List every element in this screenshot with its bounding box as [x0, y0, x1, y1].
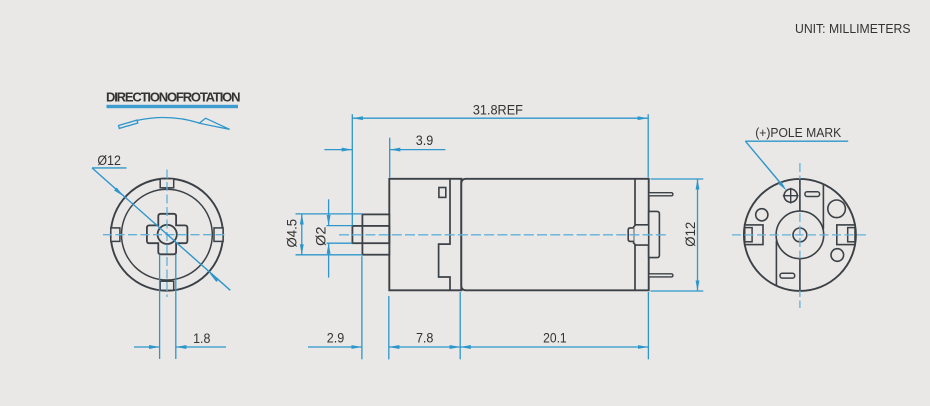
dim 20.1 extension right [647, 292, 649, 359]
rear hole upper right [828, 200, 846, 218]
ring notch bottom [160, 281, 174, 290]
rear slot lower left [780, 273, 795, 278]
dim 31.8REF line [352, 117, 648, 119]
svg-text:Ø2: Ø2 [313, 226, 328, 246]
front view horizontal centerline [103, 234, 227, 236]
dim 2.9 tail [308, 346, 362, 348]
label underline bar [107, 105, 239, 108]
svg-text:Ø4.5: Ø4.5 [285, 219, 300, 248]
svg-text:(+)POLE MARK: (+)POLE MARK [755, 125, 841, 140]
dim 20.1 line [460, 346, 648, 348]
dim dia12 line [697, 179, 699, 291]
dim 3.9 tail right [390, 149, 446, 151]
dim 1.8 extension left [159, 255, 161, 360]
dim 1.8 line right [176, 346, 226, 348]
dim dia2 extension top [327, 225, 353, 227]
rear left tab window [745, 228, 752, 242]
pole mark circle [784, 189, 797, 202]
motor shaft [352, 226, 389, 243]
dim 3.9 extension [389, 138, 391, 178]
ring notch right [214, 228, 223, 242]
front dia arrow upper [114, 188, 124, 197]
ring notch left [111, 228, 120, 242]
rotation arc arrow [119, 117, 230, 129]
rear left tab outer [745, 225, 763, 245]
hub cross [147, 214, 188, 255]
rear shaft circle [793, 228, 807, 242]
rear boss circle [776, 211, 824, 259]
dim 1.8 extension right [175, 255, 177, 360]
gearbox body [389, 179, 461, 290]
bearing recess boss [634, 225, 649, 245]
svg-text:Ø12: Ø12 [683, 222, 699, 247]
ring notch top [160, 179, 174, 188]
front dia arrow lower [210, 273, 220, 282]
terminal bottom [649, 274, 673, 277]
dim dia2 extension bottom [327, 242, 353, 244]
brush housing boss [649, 211, 660, 257]
hub center circle [158, 225, 177, 244]
pole mark label underline [745, 140, 848, 142]
pole mark cross horizontal [783, 195, 799, 197]
rear hole lower right [831, 249, 844, 262]
gearbox rear profile [439, 179, 450, 290]
front view vertical centerline [166, 170, 168, 298]
dim dia12 extension top [651, 178, 704, 180]
svg-text:2.9: 2.9 [327, 331, 345, 347]
rear seam upper right [822, 185, 824, 230]
rear view horizontal centerline [732, 234, 868, 236]
gearbox vent square [439, 188, 446, 198]
svg-text:Ø12: Ø12 [97, 153, 121, 169]
front dia leader shoulder [92, 167, 127, 169]
front dia leader diagonal [92, 168, 230, 290]
rear right tab window [848, 228, 855, 242]
rear seam bottom [799, 259, 801, 291]
dim 7.8 line [389, 346, 460, 348]
dim dia4.5 extension bottom [296, 254, 363, 256]
bearing cap [628, 228, 633, 242]
rear slot upper right [805, 192, 820, 197]
rear outer circle [744, 179, 856, 291]
dim 2.9 extension left [361, 256, 363, 359]
rear hole upper left [756, 209, 768, 221]
dim 1.8 line left [134, 346, 160, 348]
dim 20.1 extension left [459, 292, 461, 359]
pole mark cross vertical [790, 188, 792, 204]
svg-text:DIRECTIONOFROTATION: DIRECTIONOFROTATION [106, 90, 241, 105]
motor can [461, 179, 648, 290]
rear seam top [799, 179, 801, 211]
endcap separation line [634, 179, 636, 290]
svg-text:3.9: 3.9 [416, 133, 434, 149]
svg-text:7.8: 7.8 [416, 331, 434, 347]
rear seam lower left [775, 241, 777, 286]
pole mark leader arrow [778, 181, 786, 190]
dim dia2 line upper [328, 199, 330, 225]
side view centerline [339, 234, 668, 236]
svg-text:1.8: 1.8 [193, 331, 210, 347]
front inner ring circle [121, 189, 212, 280]
dim 31.8REF extension left [351, 114, 353, 225]
front outer circle [111, 179, 223, 291]
shaft bearing boss [362, 214, 389, 254]
dim 3.9 tail left [324, 149, 352, 151]
pole mark leader [746, 141, 781, 182]
rear right tab outer [837, 225, 855, 245]
svg-text:31.8REF: 31.8REF [473, 102, 523, 118]
svg-text:20.1: 20.1 [543, 331, 567, 347]
rear view vertical centerline [799, 163, 801, 308]
dim dia4.5 line [301, 214, 303, 255]
dim dia4.5 extension top [296, 213, 363, 215]
dim 2.9 extension right [388, 296, 390, 359]
terminal top [649, 193, 673, 196]
dim 31.8REF extension right [647, 114, 649, 177]
dim dia2 line lower [328, 243, 330, 277]
dim dia12 extension bottom [651, 290, 704, 292]
svg-text:UNIT: MILLIMETERS: UNIT: MILLIMETERS [795, 21, 911, 36]
